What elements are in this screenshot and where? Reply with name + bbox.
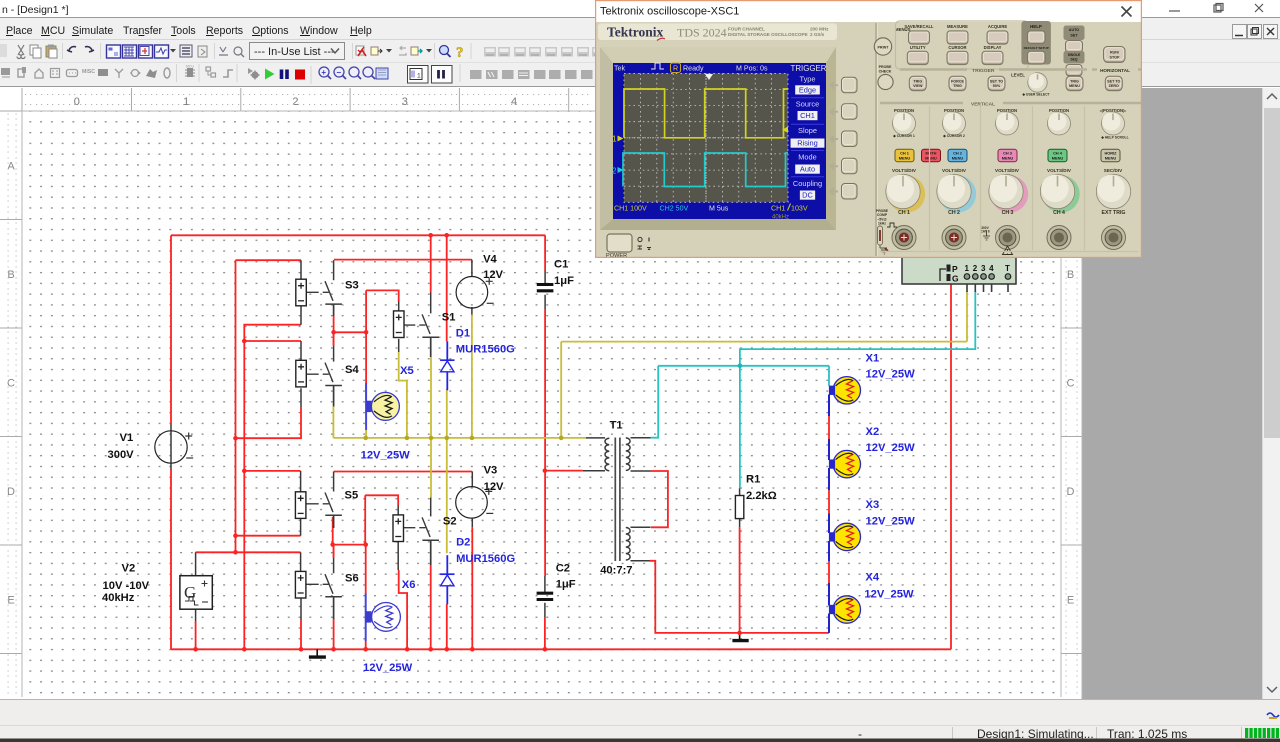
svg-text:MEASURE: MEASURE [947, 24, 968, 29]
svg-text:Slope: Slope [798, 126, 817, 135]
svg-text:CH1: CH1 [771, 205, 785, 213]
svg-text:TRIG: TRIG [1070, 79, 1079, 83]
svg-text:COMP: COMP [877, 213, 888, 217]
svg-text:MENU: MENU [1069, 84, 1080, 88]
svg-text:E: E [1067, 594, 1074, 606]
svg-text:40kHz: 40kHz [772, 215, 789, 221]
svg-text:12V_25W: 12V_25W [361, 449, 411, 461]
svg-text:50%: 50% [993, 84, 1001, 88]
svg-text:T1: T1 [610, 420, 623, 432]
svg-text:◆ CURSOR 1: ◆ CURSOR 1 [892, 134, 915, 138]
svg-text:12V_25W: 12V_25W [363, 662, 413, 674]
svg-text:C: C [1067, 377, 1075, 389]
svg-text:VOLTS/DIV: VOLTS/DIV [892, 168, 917, 173]
svg-text:--- In-Use List ---: --- In-Use List --- [254, 46, 335, 58]
svg-text:1μF: 1μF [554, 275, 574, 287]
svg-text:S3: S3 [345, 280, 359, 292]
svg-text:2: 2 [612, 167, 617, 176]
svg-text:X5: X5 [400, 365, 414, 377]
svg-text:1: 1 [612, 135, 617, 144]
svg-text:TRIGGER: TRIGGER [972, 68, 995, 74]
svg-text:VERTICAL: VERTICAL [971, 102, 995, 108]
svg-text:+: + [321, 68, 326, 77]
svg-text:CURSOR: CURSOR [948, 45, 966, 50]
svg-text:Tektronix oscilloscope-XSC1: Tektronix oscilloscope-XSC1 [600, 5, 739, 17]
svg-text:TRIG: TRIG [953, 84, 962, 88]
svg-text:◆ USER SELECT: ◆ USER SELECT [1021, 93, 1050, 97]
svg-text:VOLTS/DIV: VOLTS/DIV [942, 168, 967, 173]
svg-text:TRIG: TRIG [913, 79, 922, 83]
svg-text:X3: X3 [866, 499, 880, 511]
svg-text:12V: 12V [483, 269, 503, 281]
svg-text:2: 2 [973, 264, 978, 273]
svg-text:C2: C2 [556, 562, 570, 574]
svg-text:◆ HELP SCROLL: ◆ HELP SCROLL [1100, 136, 1128, 140]
svg-text:CAT II: CAT II [981, 230, 990, 234]
svg-text:CH1: CH1 [800, 111, 815, 120]
svg-text:CH 2: CH 2 [948, 210, 960, 216]
svg-text:CH2 50V: CH2 50V [660, 205, 689, 213]
svg-text:SAVE/RECALL: SAVE/RECALL [904, 24, 934, 29]
svg-text:TRIGGER: TRIGGER [791, 64, 827, 73]
svg-text:Type: Type [799, 75, 815, 84]
svg-text:RUN/: RUN/ [1110, 51, 1119, 55]
svg-text:300V: 300V [108, 449, 135, 461]
svg-text:ACQUIRE: ACQUIRE [988, 24, 1008, 29]
svg-text:Rising: Rising [797, 139, 818, 148]
svg-text:1μF: 1μF [556, 578, 576, 590]
svg-text:M Pos: 0s: M Pos: 0s [736, 65, 768, 73]
svg-text:V2: V2 [122, 563, 136, 575]
svg-text:S4: S4 [345, 364, 359, 376]
svg-text:FORCE: FORCE [951, 79, 964, 83]
svg-text:B: B [1067, 269, 1074, 281]
svg-text:X6: X6 [402, 579, 416, 591]
svg-text:Source: Source [796, 100, 819, 109]
svg-text:SET TO: SET TO [1107, 79, 1120, 83]
svg-text:R: R [673, 65, 678, 73]
svg-text:SEC/DIV: SEC/DIV [1104, 168, 1123, 173]
svg-text:Tek: Tek [614, 65, 625, 73]
svg-text:VOLTS/DIV: VOLTS/DIV [1047, 168, 1072, 173]
svg-text:12V: 12V [484, 481, 504, 493]
svg-text:ZERO: ZERO [1109, 84, 1119, 88]
svg-text:MCU: MCU [186, 65, 194, 69]
svg-text:12V_25W: 12V_25W [866, 442, 916, 454]
svg-text:SET: SET [1070, 33, 1078, 37]
svg-text:Mode: Mode [798, 153, 817, 162]
svg-text:S6: S6 [345, 573, 359, 585]
svg-text:Auto: Auto [800, 165, 815, 174]
svg-text:4: 4 [511, 96, 517, 108]
svg-text:?: ? [456, 45, 464, 61]
svg-text:CH 4: CH 4 [1053, 210, 1065, 216]
svg-text:Edge: Edge [799, 86, 816, 95]
svg-text:D1: D1 [456, 328, 470, 340]
svg-text:DC: DC [802, 191, 813, 200]
svg-text:R1: R1 [746, 474, 760, 486]
svg-text:103V: 103V [791, 205, 808, 213]
svg-text:40:7:7: 40:7:7 [600, 564, 632, 576]
svg-text:P: P [952, 264, 958, 274]
svg-text:CH 3: CH 3 [1002, 210, 1014, 216]
svg-text:TDS 2024: TDS 2024 [677, 26, 727, 40]
svg-text:HORIZONTAL: HORIZONTAL [1100, 68, 1130, 73]
svg-text:DIGITAL STORAGE OSCILLOSCOPE: DIGITAL STORAGE OSCILLOSCOPE [728, 32, 808, 37]
svg-text:1: 1 [183, 96, 189, 108]
svg-text:A: A [7, 160, 15, 172]
svg-text:200 MHz: 200 MHz [810, 27, 829, 32]
svg-text:VOLTS/DIV: VOLTS/DIV [995, 168, 1020, 173]
svg-text:DEFAULT SETUP: DEFAULT SETUP [1024, 46, 1049, 50]
svg-text:D2: D2 [456, 537, 470, 549]
svg-text:D: D [1067, 486, 1075, 498]
svg-text:10V -10V: 10V -10V [103, 580, 150, 592]
svg-text:V4: V4 [483, 254, 497, 266]
svg-text:12V_25W: 12V_25W [866, 515, 916, 527]
svg-text:X1: X1 [866, 352, 880, 364]
svg-text:MUR1560G: MUR1560G [456, 553, 515, 565]
svg-text:B: B [7, 269, 14, 281]
svg-text:1kHz: 1kHz [878, 222, 886, 226]
svg-text:AUTO: AUTO [1069, 28, 1080, 32]
svg-text:G: G [952, 274, 959, 284]
svg-text:4: 4 [989, 264, 994, 273]
svg-text:2: 2 [292, 96, 298, 108]
svg-text:MENU: MENU [899, 155, 911, 160]
svg-text:LEVEL: LEVEL [1011, 73, 1025, 78]
svg-text:CH1 100V: CH1 100V [614, 205, 647, 213]
svg-text:STOP: STOP [1110, 55, 1121, 59]
svg-text:MUR1560G: MUR1560G [456, 343, 515, 355]
svg-text:G: G [184, 583, 196, 602]
svg-text:X2: X2 [866, 426, 880, 438]
svg-text:0: 0 [74, 96, 80, 108]
svg-text:MISC: MISC [82, 69, 95, 75]
svg-text:SEQ: SEQ [1070, 58, 1078, 62]
svg-text:Coupling: Coupling [793, 179, 822, 188]
svg-text:1: 1 [965, 264, 970, 273]
svg-text:V3: V3 [484, 465, 498, 477]
svg-text:EXT TRIG: EXT TRIG [1102, 210, 1126, 216]
svg-text:S1: S1 [442, 312, 456, 324]
svg-text:MENU: MENU [1052, 155, 1064, 160]
svg-text:DISPLAY: DISPLAY [984, 45, 1002, 50]
svg-text:SET TO: SET TO [990, 79, 1003, 83]
svg-text:Tektronix: Tektronix [607, 25, 664, 40]
svg-text:T: T [1005, 264, 1010, 273]
svg-text:SINGLE: SINGLE [1068, 53, 1081, 57]
svg-text:40kHz: 40kHz [102, 592, 135, 604]
svg-text:MENU: MENU [925, 155, 937, 160]
svg-text:S5: S5 [345, 490, 359, 502]
svg-text:UTILITY: UTILITY [910, 45, 926, 50]
svg-text:2.2kΩ: 2.2kΩ [746, 490, 777, 502]
svg-text:2 GS/s: 2 GS/s [810, 32, 825, 37]
svg-text:M 5us: M 5us [709, 205, 729, 213]
svg-text:CHECK: CHECK [879, 69, 892, 73]
svg-text:HELP: HELP [1030, 24, 1042, 29]
svg-text:MENU: MENU [1105, 155, 1117, 160]
svg-text:X4: X4 [865, 571, 879, 583]
svg-text:Ready: Ready [683, 65, 704, 73]
svg-text:MENU: MENU [1002, 155, 1014, 160]
svg-text:CH 1: CH 1 [898, 210, 910, 216]
svg-text:FOUR CHANNEL: FOUR CHANNEL [728, 27, 765, 32]
svg-text:3: 3 [402, 96, 408, 108]
svg-text:◆ CURSOR 2: ◆ CURSOR 2 [942, 134, 965, 138]
svg-text:1: 1 [417, 73, 421, 80]
svg-text:12V_25W: 12V_25W [864, 589, 914, 601]
svg-text:MENU: MENU [952, 155, 964, 160]
svg-text:S2: S2 [443, 516, 457, 528]
svg-text:V1: V1 [120, 432, 134, 444]
svg-text:12V_25W: 12V_25W [866, 369, 916, 381]
svg-text:3: 3 [981, 264, 986, 273]
svg-text:VIEW: VIEW [913, 84, 923, 88]
svg-text:PRINT: PRINT [877, 46, 889, 50]
svg-text:−: − [336, 68, 341, 77]
svg-text:C1: C1 [554, 259, 568, 271]
